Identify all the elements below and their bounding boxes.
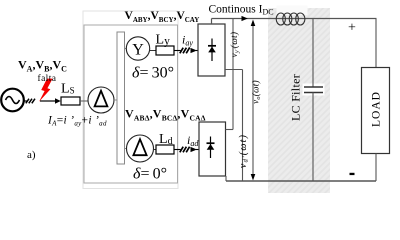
wire bridge1 negative output xyxy=(225,70,243,182)
diode D2 xyxy=(207,137,215,159)
label i_ad xyxy=(187,133,199,148)
transformer core bar xyxy=(117,32,125,164)
inductor Ls xyxy=(61,97,80,105)
measurement arrow v_o xyxy=(251,20,256,181)
svg-text:vy′(ωt): vy′(ωt) xyxy=(229,32,241,58)
svg-text:LC Filter: LC Filter xyxy=(289,74,303,121)
svg-text:VABY,VBCY,VCAY: VABY,VBCY,VCAY xyxy=(125,10,200,24)
wire with hash marks and arrow into bridge 1 xyxy=(174,48,198,54)
filter capacitor xyxy=(303,19,325,182)
load xyxy=(362,19,390,182)
rectifier bridge B1 xyxy=(198,24,225,76)
label IA = i'ay + i'ad xyxy=(47,115,107,128)
svg-text:δ= 0°: δ= 0° xyxy=(133,166,167,183)
top DC rail with arrow xyxy=(212,16,377,24)
inductor Ly xyxy=(156,46,174,55)
diode D1 xyxy=(208,39,216,62)
label delta = 0 deg xyxy=(133,166,167,183)
label Ly xyxy=(156,33,171,48)
svg-text:vd′(ωt): vd′(ωt) xyxy=(238,134,250,168)
label delta = 30 deg xyxy=(132,65,174,82)
label VA,VB,VC xyxy=(18,58,67,74)
bottom DC rail xyxy=(226,176,376,181)
svg-text:iay: iay xyxy=(182,33,193,48)
wire Y to Ly xyxy=(150,50,156,52)
svg-text:iad: iad xyxy=(187,133,199,148)
wire delta to Ld xyxy=(154,149,157,151)
fault lightning bolt xyxy=(39,79,53,102)
svg-text:VA,VB,VC: VA,VB,VC xyxy=(18,58,67,74)
label LC Filter xyxy=(289,74,303,121)
svg-text:LS: LS xyxy=(61,82,75,97)
svg-text:Y: Y xyxy=(132,42,144,59)
wire with hash marks and arrow into bridge 2 xyxy=(174,147,199,153)
label Continous IDC xyxy=(209,4,274,17)
wire bridge2 positive output xyxy=(226,19,234,130)
svg-text:Ly: Ly xyxy=(156,33,171,48)
label falta xyxy=(38,73,57,84)
label v_d'(wt) xyxy=(238,134,250,168)
svg-text:Continous IDC: Continous IDC xyxy=(209,4,274,17)
label plus terminal xyxy=(348,21,356,36)
ac source Vs xyxy=(1,89,24,112)
label v_y'(wt) xyxy=(229,32,241,58)
label minus terminal xyxy=(350,173,355,175)
inductor Ld xyxy=(156,145,174,154)
svg-text:VABΔ,VBCΔ,VCAΔ: VABΔ,VBCΔ,VCAΔ xyxy=(125,107,206,123)
svg-text:LOAD: LOAD xyxy=(371,91,383,127)
svg-text:+: + xyxy=(348,21,356,36)
svg-text:IA=i ’ay+i ’ad: IA=i ’ay+i ’ad xyxy=(47,115,107,128)
label v_o(wt) xyxy=(251,80,263,104)
svg-text:a): a) xyxy=(27,149,36,161)
label VABY,VBCY,VCAY xyxy=(125,10,200,24)
wire core to secondary delta xyxy=(125,148,128,150)
wire Ls to primary xyxy=(80,100,89,102)
transformer enclosure box xyxy=(84,25,178,183)
wire core to secondary Y xyxy=(125,48,128,50)
label i_ay xyxy=(182,33,193,48)
transformer secondary winding Y xyxy=(126,37,149,60)
transformer enclosure outer ghost frame xyxy=(83,11,178,189)
svg-text:vo(ωt): vo(ωt) xyxy=(251,80,263,104)
rectifier bridge B2 xyxy=(199,122,226,176)
svg-text:falta: falta xyxy=(38,73,57,84)
svg-text:Ld: Ld xyxy=(159,132,173,147)
svg-text:δ= 30°: δ= 30° xyxy=(132,65,174,82)
wire primary to core xyxy=(114,99,117,101)
LC filter shaded panel xyxy=(268,8,330,193)
filter inductor xyxy=(276,6,307,26)
label Ld xyxy=(159,132,173,147)
transformer primary winding delta xyxy=(88,87,114,113)
wire arrow into Ls xyxy=(40,98,61,103)
label a) xyxy=(27,149,36,161)
transformer secondary winding delta xyxy=(127,135,154,162)
wire from source with fault hash marks xyxy=(24,99,36,104)
label Ls xyxy=(61,82,75,97)
label VABd,VBCd,VCAd xyxy=(125,107,206,123)
